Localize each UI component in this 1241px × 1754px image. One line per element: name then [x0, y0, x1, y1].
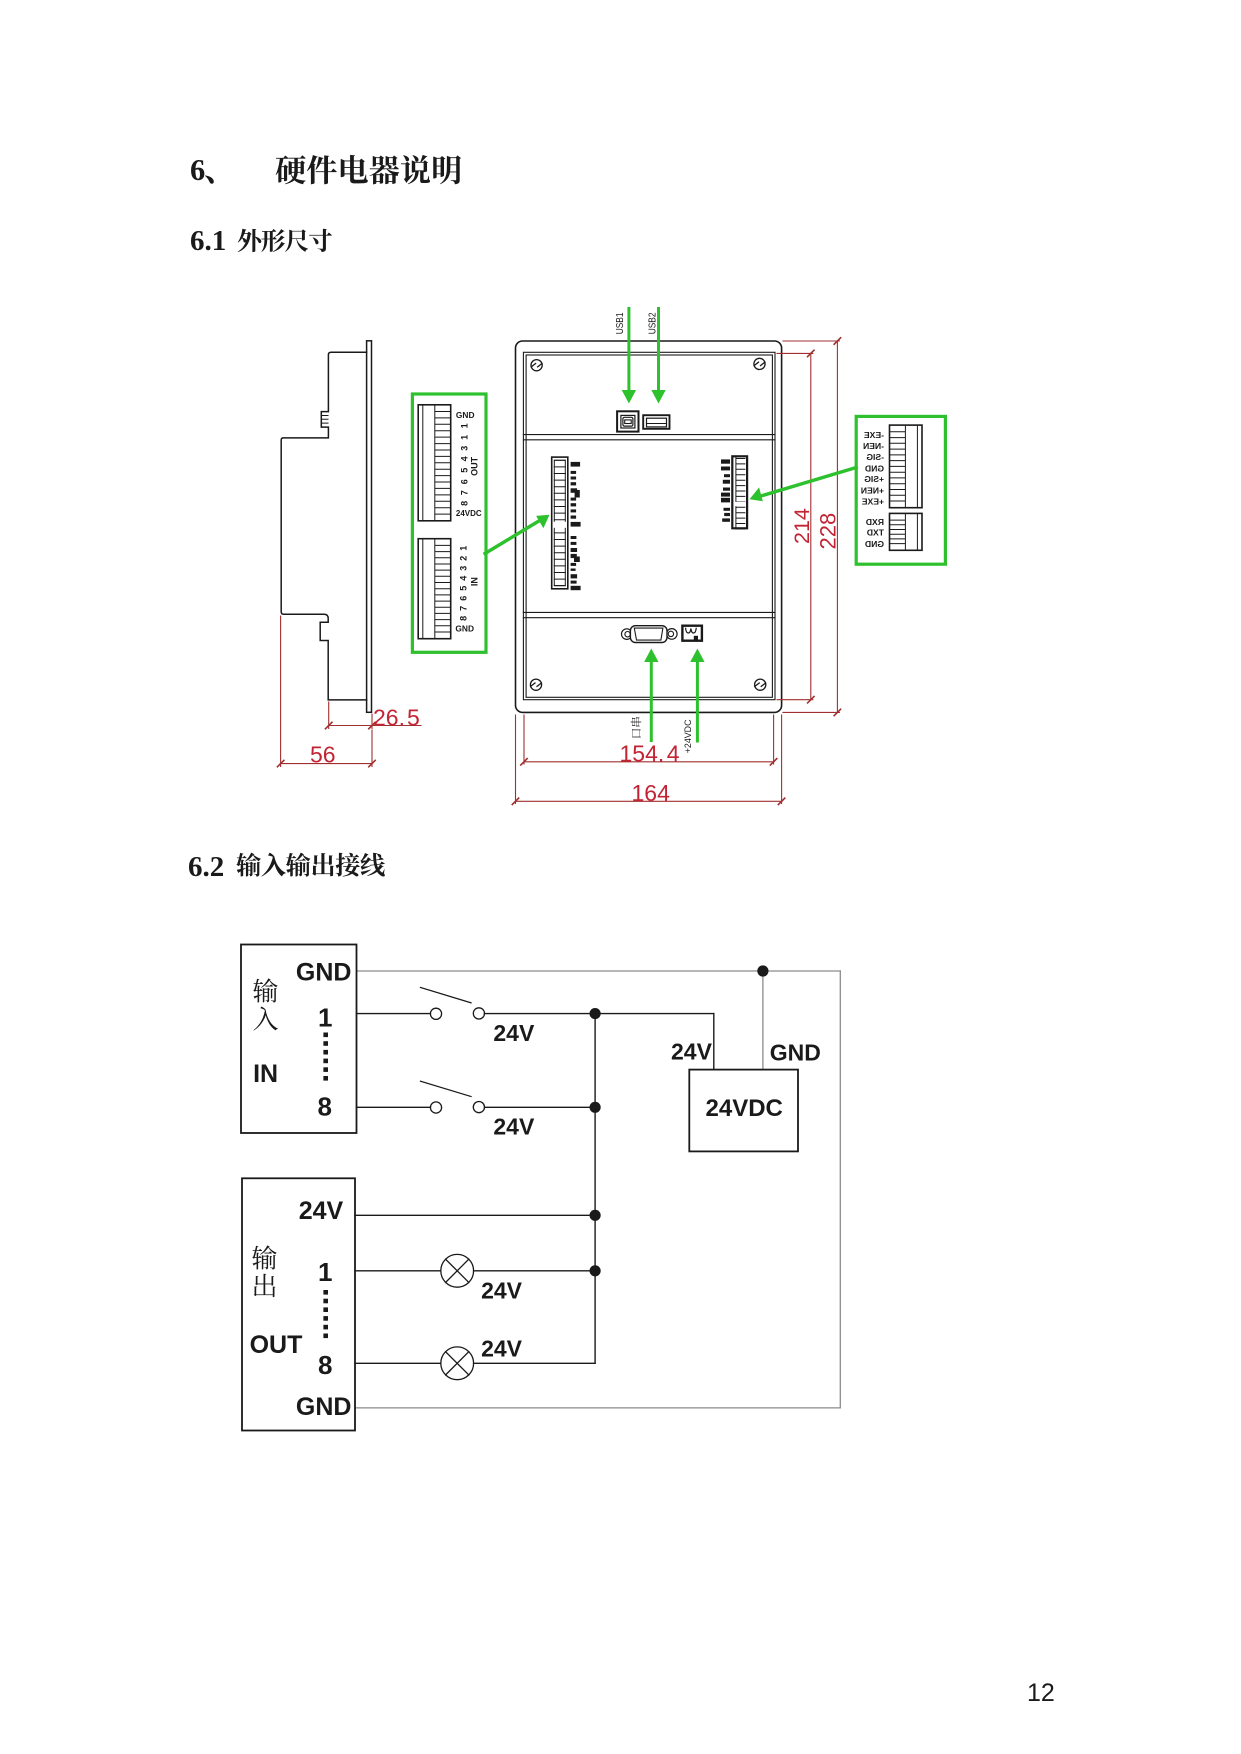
svg-text:5: 5 — [459, 468, 469, 473]
section divider lower — [523, 612, 775, 617]
svg-text:5: 5 — [459, 586, 469, 591]
OUT box labels — [250, 1197, 352, 1421]
section divider upper — [523, 435, 775, 440]
serial port arrow — [644, 649, 658, 741]
side view: case outline — [281, 352, 366, 700]
svg-text:GND: GND — [296, 959, 352, 987]
svg-text:24V: 24V — [481, 1335, 523, 1361]
OUT terminal box — [242, 1178, 355, 1430]
left internal connector strip — [552, 457, 568, 589]
dimension 56 — [277, 616, 375, 767]
svg-text:6: 6 — [459, 596, 469, 601]
IN dots ellipsis — [323, 1033, 328, 1081]
lamp L8 — [441, 1347, 474, 1380]
OUT dots ellipsis — [323, 1290, 328, 1338]
svg-text:-NEN: -NEN — [863, 441, 884, 451]
svg-text:228: 228 — [815, 513, 840, 550]
side view: front panel — [367, 341, 372, 713]
svg-text:164: 164 — [632, 780, 671, 806]
junction dot IN1/bus — [590, 1008, 601, 1019]
svg-text:24V: 24V — [481, 1277, 523, 1303]
svg-text:USB1: USB1 — [615, 312, 626, 334]
svg-text:154.4: 154.4 — [620, 741, 680, 767]
dimension 154.4 — [521, 715, 777, 765]
svg-text:GND: GND — [770, 1040, 821, 1066]
right box lower terminal block — [890, 513, 923, 550]
24VDC supply box — [689, 1070, 798, 1152]
junction dot GND/supply — [757, 965, 768, 976]
wire GND bottom (loop to OUT GND) — [355, 1407, 840, 1409]
wire right GND loop vertical — [839, 971, 841, 1408]
svg-text:RXD: RXD — [866, 517, 884, 527]
svg-text:24V: 24V — [671, 1039, 713, 1065]
svg-text:1: 1 — [318, 1003, 332, 1033]
svg-text:TXD: TXD — [867, 528, 884, 538]
svg-text:56: 56 — [310, 742, 336, 768]
svg-text:GND: GND — [865, 463, 884, 473]
USB1 arrow — [622, 309, 636, 404]
wire OUT8 — [355, 1362, 595, 1364]
svg-text:OUT: OUT — [470, 456, 480, 476]
svg-text:-SIG: -SIG — [866, 452, 884, 462]
page number — [1027, 1679, 1055, 1708]
corner screws — [530, 358, 765, 690]
svg-text:4: 4 — [459, 456, 469, 461]
svg-text:-EXE: -EXE — [864, 430, 884, 440]
svg-text:24V: 24V — [493, 1020, 535, 1046]
dimension 164 — [512, 715, 785, 805]
OUT terminal block drawing — [418, 405, 451, 521]
svg-text:1: 1 — [459, 435, 469, 440]
svg-text:24VDC: 24VDC — [456, 509, 482, 518]
svg-text:2: 2 — [459, 556, 469, 561]
IN terminal box — [241, 945, 357, 1134]
+24VDC arrow — [690, 649, 704, 742]
svg-text:24VDC: 24VDC — [706, 1095, 783, 1122]
wire OUT1 — [355, 1270, 595, 1272]
right internal connector strip — [732, 456, 747, 528]
svg-text:1: 1 — [459, 423, 469, 428]
svg-text:8: 8 — [459, 616, 469, 621]
svg-text:214: 214 — [790, 508, 814, 544]
IN terminal block drawing — [418, 539, 451, 639]
svg-text:26.5: 26.5 — [373, 705, 420, 731]
svg-text:+EXE: +EXE — [862, 497, 884, 507]
svg-text:GND: GND — [455, 624, 474, 634]
USB2 arrow — [651, 309, 665, 404]
lamp L1 — [441, 1254, 474, 1287]
IN box labels — [253, 959, 351, 1122]
USB2 connector (USB-A) — [643, 415, 669, 429]
svg-text:3: 3 — [459, 566, 469, 571]
right green terminal detail box — [856, 416, 945, 564]
svg-text:7: 7 — [459, 490, 469, 495]
junction dot IN8/bus — [590, 1102, 601, 1113]
svg-text:+24VDC: +24VDC — [683, 719, 694, 753]
wire IN1 — [357, 1013, 714, 1015]
svg-text:+NEN: +NEN — [861, 485, 884, 495]
svg-text:GND: GND — [456, 410, 475, 420]
dimension 214 — [777, 350, 814, 703]
switch K8 — [421, 1081, 485, 1113]
serial port label — [631, 717, 642, 737]
svg-text:8: 8 — [318, 1092, 332, 1122]
dimension 228 — [783, 338, 841, 716]
svg-text:IN: IN — [470, 577, 480, 586]
junction dot OUT1/bus — [590, 1265, 601, 1276]
right strip pin ticks — [721, 459, 730, 521]
svg-text:GND: GND — [296, 1393, 352, 1421]
wire GND drop to 24VDC supply — [762, 971, 764, 1070]
wire GND top (IN GND to supply and right loop) — [357, 970, 841, 972]
right box upper terminal block — [890, 425, 923, 508]
svg-text:3: 3 — [459, 446, 469, 451]
USB1 label — [0, 0, 1, 1]
left box pointer arrow — [485, 515, 550, 554]
left strip pin ticks — [571, 462, 581, 590]
vertical bus 24V — [594, 1014, 596, 1364]
front view inner panel double border — [523, 352, 775, 699]
left green terminal detail box — [412, 394, 486, 652]
wire IN8 — [357, 1106, 596, 1108]
svg-text:24V: 24V — [299, 1197, 344, 1225]
dimension 26.5 — [326, 702, 422, 729]
svg-text:+SIG: +SIG — [864, 474, 884, 484]
svg-text:7: 7 — [459, 606, 469, 611]
switch K1 — [421, 988, 485, 1020]
heading 6.1 — [190, 225, 226, 258]
heading 6 — [190, 153, 205, 188]
svg-text:IN: IN — [253, 1060, 278, 1088]
wire 24V drop to supply — [713, 1014, 715, 1070]
right box pointer arrow — [750, 468, 857, 502]
svg-text:4: 4 — [459, 576, 469, 581]
USB1 connector (USB-B) — [617, 411, 638, 431]
svg-text:24V: 24V — [493, 1114, 535, 1140]
svg-text:6: 6 — [459, 479, 469, 484]
junction dot 24V/bus — [590, 1210, 601, 1221]
+24VDC power connector — [682, 626, 702, 641]
DB9 serial connector — [622, 629, 678, 640]
svg-text:8: 8 — [318, 1350, 332, 1380]
svg-text:GND: GND — [865, 539, 884, 549]
front view outer case — [516, 341, 782, 712]
heading 6.2 — [188, 851, 224, 884]
svg-text:1: 1 — [318, 1257, 332, 1287]
svg-text:1: 1 — [459, 546, 469, 551]
svg-text:8: 8 — [459, 501, 469, 506]
svg-text:OUT: OUT — [250, 1331, 303, 1359]
wire OUT 24V — [355, 1214, 595, 1216]
svg-text:USB2: USB2 — [647, 312, 658, 334]
